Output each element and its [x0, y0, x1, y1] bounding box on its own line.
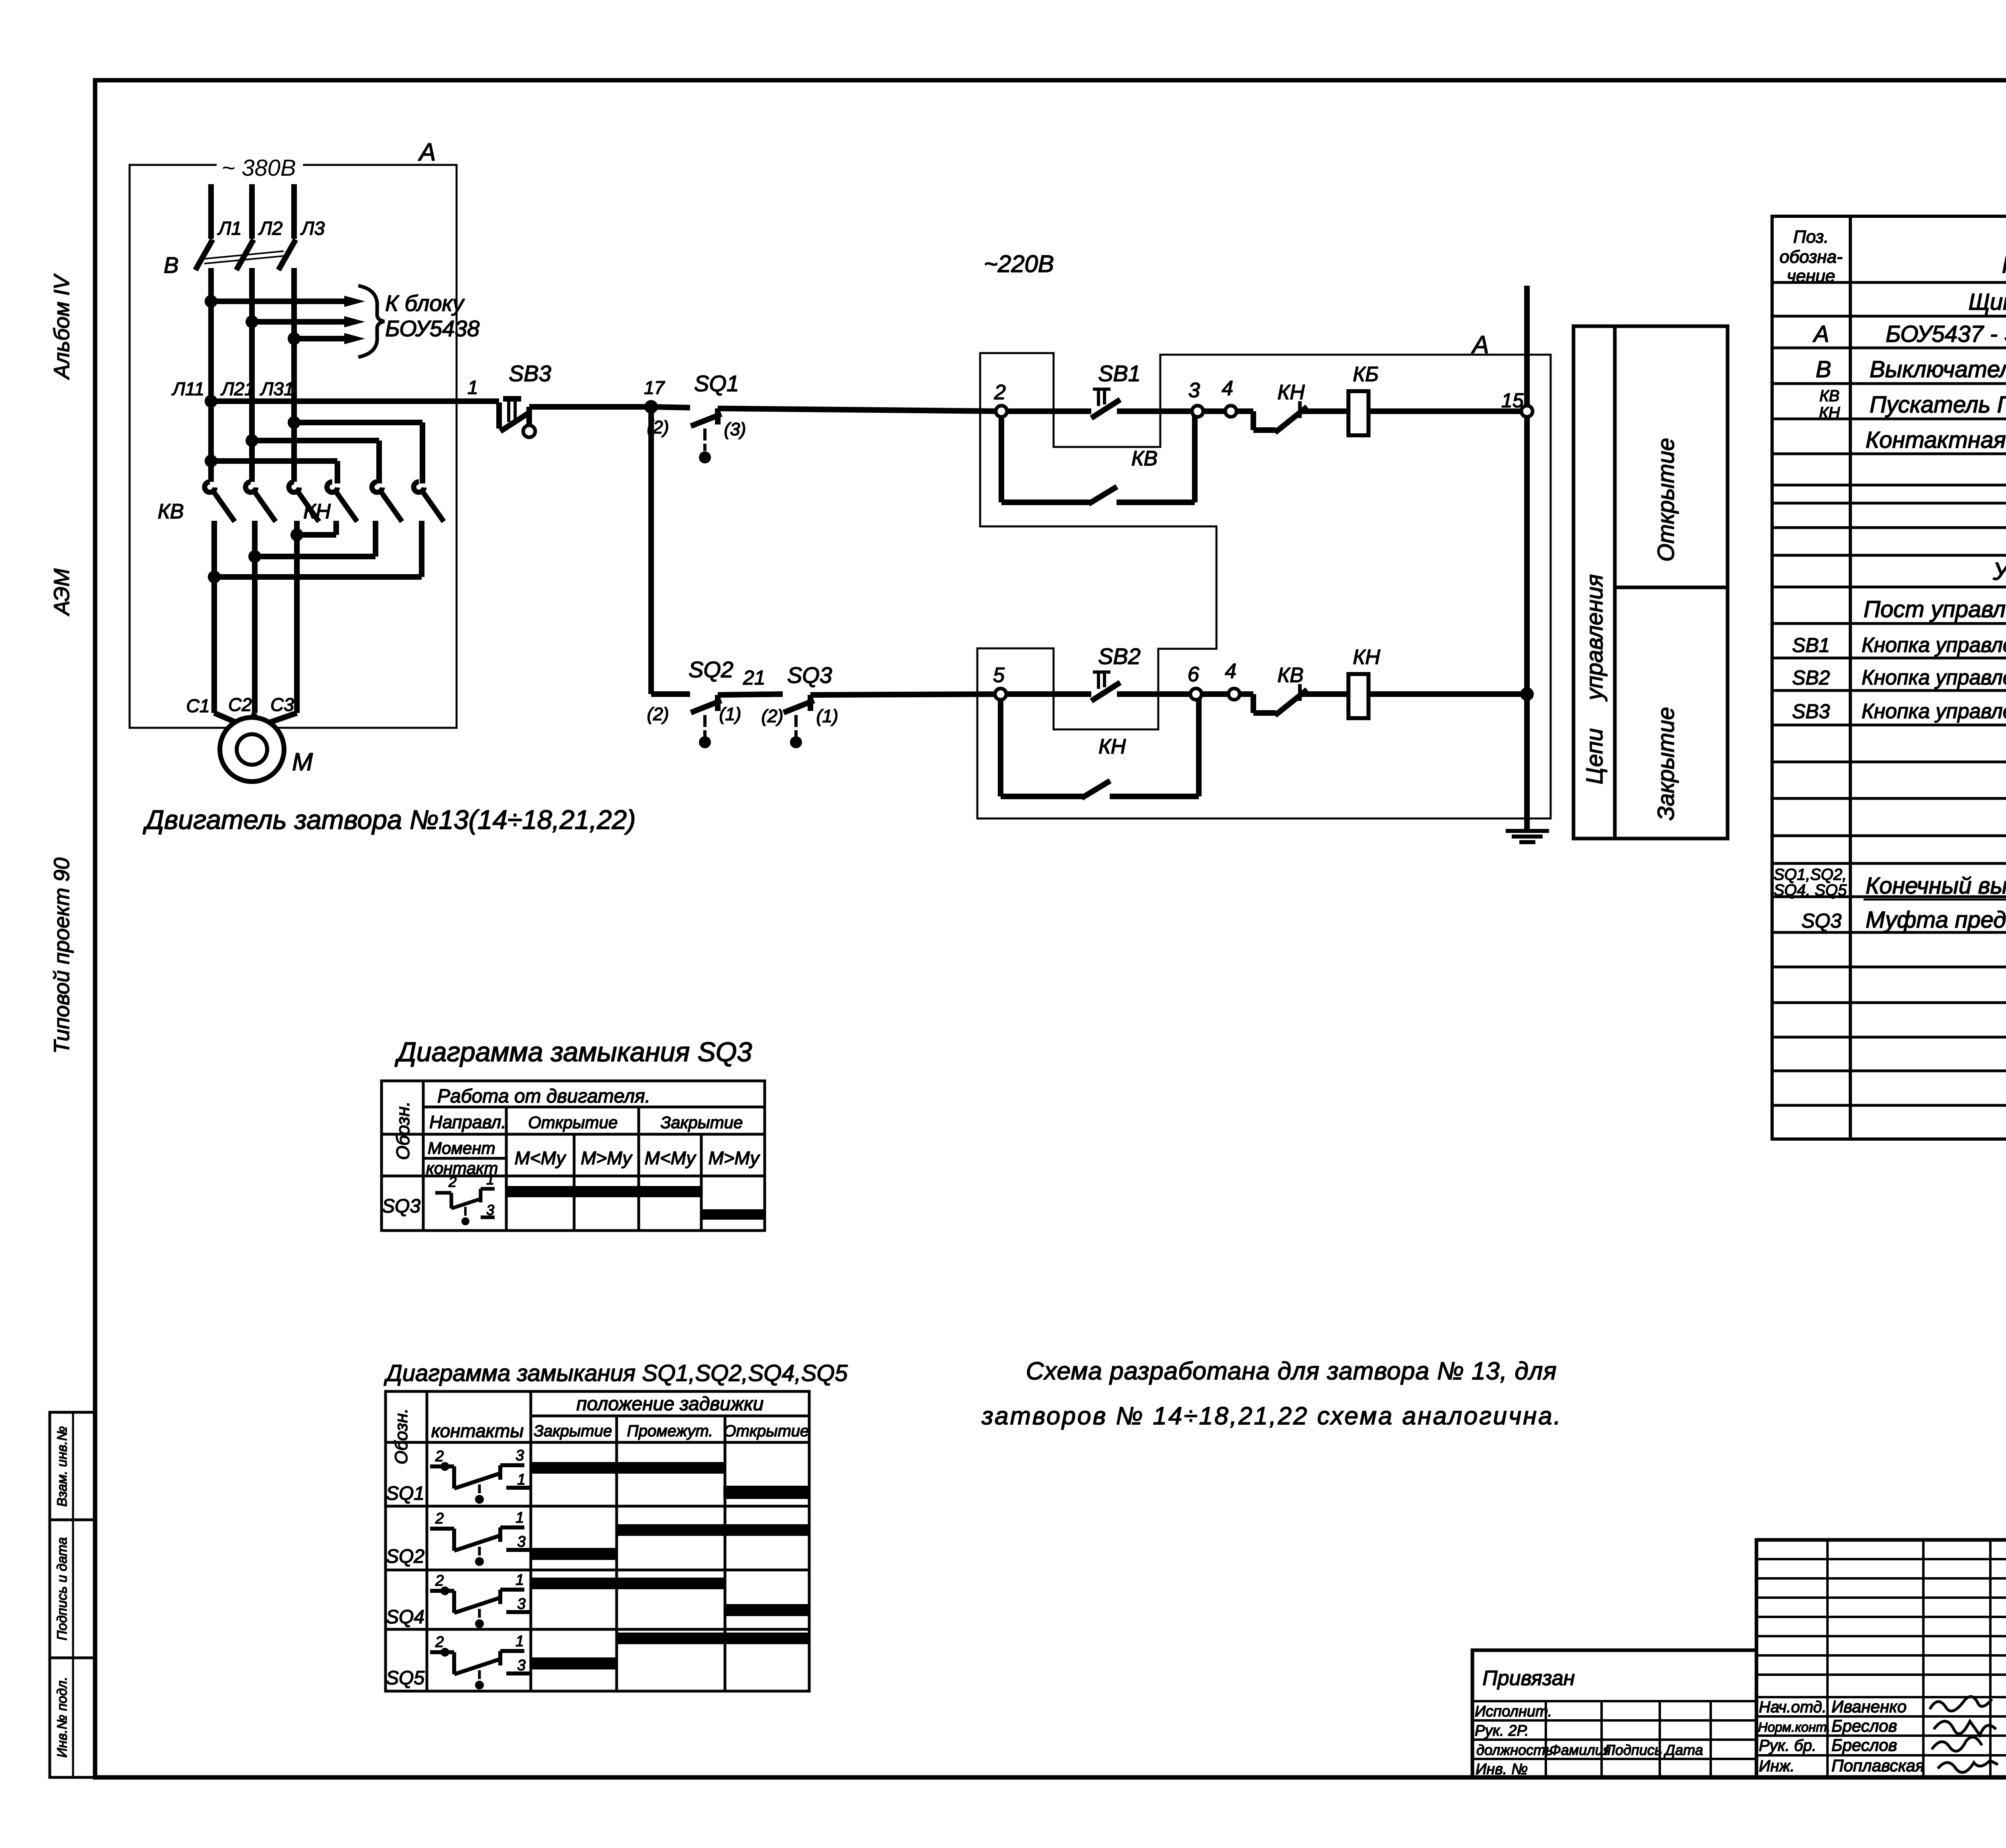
svg-text:SQ1: SQ1 — [386, 1483, 424, 1504]
svg-text:Л3: Л3 — [300, 217, 325, 239]
svg-text:Альбом IV: Альбом IV — [50, 273, 74, 380]
svg-text:Иваненко: Иваненко — [1831, 1697, 1907, 1716]
svg-text:Щит 1Щ. Панель 4(5): Щит 1Щ. Панель 4(5) — [1968, 289, 2006, 315]
svg-text:БОУ5437 - 3074ГУХЛ4А: БОУ5437 - 3074ГУХЛ4А — [1886, 321, 2006, 347]
svg-text:БОУ5438: БОУ5438 — [385, 316, 479, 341]
svg-text:1: 1 — [517, 1471, 526, 1488]
svg-text:М>Му: М>Му — [708, 1147, 760, 1168]
svg-text:Закрытие: Закрытие — [1653, 707, 1679, 820]
svg-text:SQ3: SQ3 — [787, 662, 832, 688]
svg-text:(2): (2) — [647, 704, 669, 724]
svg-text:3: 3 — [517, 1596, 526, 1612]
svg-text:Исполнит.: Исполнит. — [1475, 1703, 1552, 1720]
svg-text:1: 1 — [467, 377, 478, 398]
svg-text:КН: КН — [1819, 404, 1840, 422]
svg-text:Открытие: Открытие — [724, 1422, 809, 1440]
svg-text:Кнопка управления КУГФ,К, 2Р: Кнопка управления КУГФ,К, 2Р „стоп" — [1862, 700, 2006, 723]
svg-text:Инв. №: Инв. № — [1476, 1761, 1528, 1778]
svg-text:КН: КН — [1277, 381, 1305, 404]
svg-text:SQ3: SQ3 — [1801, 910, 1842, 932]
svg-text:В: В — [1816, 356, 1831, 382]
svg-text:Открытие: Открытие — [528, 1113, 617, 1132]
svg-text:Взам. инв.№: Взам. инв.№ — [55, 1426, 70, 1507]
svg-text:М>Му: М>Му — [581, 1147, 633, 1168]
svg-text:1: 1 — [486, 1171, 494, 1188]
svg-text:Диаграмма замыкания SQ1,SQ2,SQ: Диаграмма замыкания SQ1,SQ2,SQ4,SQ5 — [384, 1360, 848, 1386]
svg-text:1: 1 — [516, 1572, 524, 1588]
svg-text:Л31: Л31 — [260, 378, 294, 399]
svg-text:4: 4 — [1222, 377, 1233, 400]
svg-text:Наименование: Наименование — [2002, 252, 2006, 278]
svg-text:обозна-: обозна- — [1780, 247, 1843, 267]
svg-text:должность: должность — [1476, 1742, 1553, 1758]
svg-text:Цепи: Цепи — [1582, 728, 1608, 784]
svg-text:Работа от двигателя.: Работа от двигателя. — [437, 1086, 650, 1107]
svg-text:АЭМ: АЭМ — [50, 569, 74, 616]
svg-text:Обозн.: Обозн. — [392, 1101, 413, 1160]
svg-text:(1): (1) — [719, 704, 741, 724]
svg-text:Момент: Момент — [428, 1139, 495, 1158]
svg-text:контакты: контакты — [431, 1420, 524, 1441]
svg-text:SQ5: SQ5 — [386, 1667, 424, 1689]
svg-text:Кнопка управления КУ,2,1з+1: Кнопка управления КУ,2,1з+1р„открыт" — [1862, 634, 2006, 657]
svg-text:SQ1,SQ2,: SQ1,SQ2, — [1774, 866, 1847, 883]
svg-text:SB3: SB3 — [1792, 700, 1830, 723]
svg-text:3: 3 — [516, 1447, 524, 1464]
svg-text:Подпись: Подпись — [1605, 1742, 1662, 1758]
svg-text:А: А — [418, 138, 436, 166]
svg-text:Привязан: Привязан — [1482, 1667, 1575, 1690]
svg-text:SQ2: SQ2 — [688, 657, 733, 682]
svg-text:КВ: КВ — [158, 500, 184, 523]
svg-text:Инв.№ подл.: Инв.№ подл. — [55, 1677, 70, 1758]
svg-text:Типовой проект 90: Типовой проект 90 — [50, 857, 74, 1054]
svg-text:2: 2 — [448, 1174, 457, 1190]
svg-text:Рук. 2Р.: Рук. 2Р. — [1475, 1722, 1529, 1739]
svg-text:17: 17 — [644, 377, 665, 398]
svg-text:Пускатель ПМЛ 150104: Пускатель ПМЛ 150104 — [1870, 392, 2006, 418]
svg-text:Выключатель АЕ2026-10У3: Выключатель АЕ2026-10У3 — [1870, 356, 2006, 382]
svg-text:КВ: КВ — [1131, 447, 1157, 470]
svg-text:SB1: SB1 — [1792, 634, 1830, 656]
svg-text:SB2: SB2 — [1098, 644, 1141, 669]
svg-text:Бреслов: Бреслов — [1831, 1716, 1897, 1735]
svg-text:КВ: КВ — [1819, 387, 1840, 405]
svg-text:В: В — [164, 252, 179, 278]
svg-text:15: 15 — [1501, 389, 1524, 412]
svg-text:(2): (2) — [647, 417, 669, 437]
svg-text:КН: КН — [1098, 735, 1126, 758]
svg-text:КВ: КВ — [1277, 664, 1303, 687]
svg-text:(2): (2) — [761, 706, 784, 726]
svg-text:чение: чение — [1787, 266, 1835, 286]
svg-text:затворов № 14÷18,21,22 схем: затворов № 14÷18,21,22 схема аналогична. — [981, 1402, 1562, 1430]
svg-text:Направл.: Направл. — [429, 1112, 506, 1132]
svg-text:(3): (3) — [724, 419, 746, 439]
svg-text:Промежут.: Промежут. — [627, 1422, 713, 1440]
svg-text:(1): (1) — [816, 706, 839, 726]
svg-text:Поз.: Поз. — [1793, 227, 1829, 247]
svg-text:SQ4: SQ4 — [386, 1606, 424, 1628]
svg-text:Диаграмма замыкания SQ3: Диаграмма замыкания SQ3 — [394, 1037, 752, 1067]
svg-text:Кнопка управления КУ,2, 1з+1: Кнопка управления КУ,2, 1з+1р„закрыт" — [1862, 666, 2006, 689]
svg-text:2: 2 — [435, 1510, 444, 1527]
svg-text:Подпись и дата: Подпись и дата — [55, 1537, 70, 1640]
svg-text:Нач.отд.: Нач.отд. — [1759, 1698, 1827, 1716]
svg-text:~ 380В: ~ 380В — [221, 155, 296, 181]
svg-text:Л1: Л1 — [217, 217, 242, 239]
svg-text:3: 3 — [517, 1657, 526, 1674]
svg-text:Контактная приставка ПКЛ2004: Контактная приставка ПКЛ2004 — [1866, 427, 2006, 453]
svg-text:Л11: Л11 — [171, 378, 204, 399]
svg-text:М<Му: М<Му — [514, 1147, 566, 1168]
svg-text:М<Му: М<Му — [644, 1147, 696, 1168]
svg-text:2: 2 — [435, 1634, 444, 1651]
svg-text:Фамилия: Фамилия — [1549, 1742, 1611, 1758]
svg-text:Муфта предельного момента: Муфта предельного момента — [1866, 907, 2006, 933]
svg-text:Дата: Дата — [1663, 1742, 1703, 1758]
svg-text:Л2: Л2 — [258, 217, 282, 239]
svg-text:21: 21 — [743, 666, 765, 689]
svg-text:У затвора: У затвора — [1992, 558, 2006, 585]
svg-text:1: 1 — [516, 1633, 524, 1650]
svg-text:3: 3 — [517, 1533, 526, 1550]
svg-text:положение задвижки: положение задвижки — [577, 1393, 764, 1415]
svg-text:3: 3 — [486, 1202, 494, 1218]
svg-text:5: 5 — [993, 664, 1005, 687]
svg-text:2: 2 — [435, 1572, 444, 1589]
svg-text:6: 6 — [1188, 663, 1199, 686]
svg-text:~220В: ~220В — [984, 250, 1054, 277]
svg-text:управления: управления — [1582, 574, 1608, 702]
svg-text:Закрытие: Закрытие — [534, 1422, 612, 1440]
svg-text:С2: С2 — [228, 694, 252, 715]
svg-text:Схема разработана для за: Схема разработана для затвора № 13, для — [1026, 1357, 1557, 1385]
svg-text:2: 2 — [994, 381, 1006, 404]
svg-text:Обозн.: Обозн. — [392, 1408, 411, 1464]
svg-text:Открытие: Открытие — [1653, 438, 1679, 562]
svg-text:SB3: SB3 — [509, 361, 551, 386]
svg-text:SQ1: SQ1 — [694, 371, 739, 396]
svg-text:А: А — [1813, 321, 1829, 347]
svg-text:Поплавская: Поплавская — [1831, 1756, 1925, 1775]
svg-text:Закрытие: Закрытие — [661, 1113, 743, 1132]
svg-text:А: А — [1471, 331, 1489, 359]
svg-text:Конечный выключатель: Конечный выключатель — [1866, 873, 2006, 899]
svg-text:Двигатель затвора №13(14÷18,2: Двигатель затвора №13(14÷18,21,22) — [142, 805, 636, 835]
svg-text:Рук. бр.: Рук. бр. — [1759, 1737, 1817, 1755]
svg-text:М: М — [292, 748, 313, 776]
svg-text:КН: КН — [303, 500, 331, 523]
svg-text:Бреслов: Бреслов — [1831, 1736, 1897, 1755]
svg-text:4: 4 — [1225, 660, 1236, 683]
svg-text:Норм.конт.: Норм.конт. — [1758, 1720, 1830, 1734]
svg-text:Пост управления ПКУ15-19.131: Пост управления ПКУ15-19.131-54У2 — [1864, 596, 2006, 622]
svg-text:К блоку: К блоку — [385, 290, 465, 316]
svg-text:С3: С3 — [270, 694, 294, 715]
svg-text:КН: КН — [1353, 646, 1381, 669]
svg-text:Инж.: Инж. — [1759, 1757, 1795, 1775]
svg-text:SB1: SB1 — [1098, 361, 1141, 386]
svg-text:SQ3: SQ3 — [382, 1196, 420, 1217]
svg-text:3: 3 — [1188, 379, 1200, 402]
svg-text:КБ: КБ — [1353, 363, 1379, 386]
svg-text:Л21: Л21 — [220, 378, 255, 399]
svg-text:SQ4, SQ5: SQ4, SQ5 — [1774, 881, 1847, 899]
svg-text:SB2: SB2 — [1792, 666, 1830, 689]
svg-text:SQ2: SQ2 — [386, 1546, 424, 1567]
svg-text:2: 2 — [435, 1448, 444, 1465]
svg-text:С1: С1 — [186, 695, 210, 716]
svg-text:1: 1 — [516, 1509, 524, 1526]
